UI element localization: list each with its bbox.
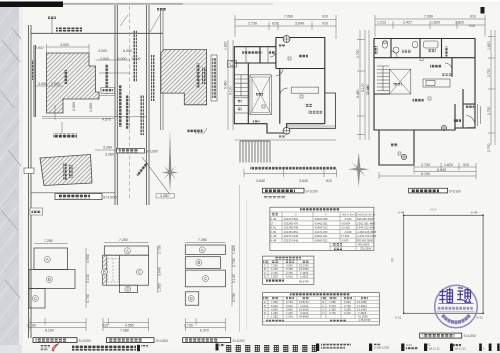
closet divisions [246,47,268,63]
svg-text:7.280: 7.280 [119,238,128,242]
svg-text:4.000: 4.000 [60,43,69,47]
svg-text:S=1/200: S=1/200 [156,339,168,343]
svg-text:910: 910 [470,15,476,19]
svg-text:9.100: 9.100 [229,86,233,95]
svg-text:K-50: K-50 [271,230,277,234]
svg-text:4.550: 4.550 [286,264,293,268]
svg-text:-1.646.726.6166: -1.646.726.6166 [357,234,377,238]
svg-text:B: B [103,270,106,275]
svg-text:2.000: 2.000 [100,57,109,61]
circle symbols [441,125,446,130]
svg-text:-5.630: -5.630 [344,217,352,221]
svg-text:S=1/200: S=1/200 [79,339,91,343]
right top tick [481,7,485,14]
svg-text:910: 910 [326,179,332,183]
svg-text:3.640: 3.640 [299,179,308,183]
kitchen counter [423,79,450,87]
svg-text:-61464.921: -61464.921 [314,234,328,238]
svg-text:17: 17 [271,221,274,225]
svg-text:3.280: 3.280 [105,152,114,156]
svg-text:K-48: K-48 [398,210,405,214]
middle small text row [438,307,473,310]
dim 3.280 [95,149,120,151]
svg-text:2.730: 2.730 [286,300,293,304]
svg-text:A: A [264,264,266,268]
svg-text:2.730: 2.730 [344,304,351,308]
dims diagram2 [103,243,158,332]
dimension lines around footprint [34,44,147,120]
svg-text:1/100·1/200: 1/100·1/200 [374,346,389,350]
bottom boundary text 隣地境界線 [53,134,77,138]
balcony louver hatch below plan [240,141,270,163]
svg-text:D: D [190,296,193,301]
kanji NIN [457,288,471,303]
svg-text:0.910: 0.910 [286,274,293,278]
svg-text:230.2804: 230.2804 [360,247,372,251]
svg-text:2.730: 2.730 [158,245,162,254]
svg-text:2.427: 2.427 [403,21,412,25]
svg-text:2.730: 2.730 [184,324,193,328]
svg-text:1.820: 1.820 [444,163,453,167]
verticals top row [391,39,442,58]
washitsu tatami square double border [250,75,271,115]
separator + small text before construction name [216,344,219,351]
top dimension texts 1F [377,15,476,29]
svg-text:2.730: 2.730 [27,324,36,328]
svg-text:3.000: 3.000 [72,102,76,111]
bed in bedroom [291,87,319,93]
svg-text:S=1/200: S=1/200 [103,196,117,200]
svg-text:K-51: K-51 [271,226,277,230]
internal verticals [248,47,279,124]
2F title bar [262,188,317,193]
svg-text:3.000: 3.000 [38,82,47,86]
stairs shaft [234,75,248,96]
svg-text:2.730: 2.730 [329,311,336,315]
compass star 2 [348,152,369,187]
left scanned map strip [0,5,22,346]
svg-text:5.460: 5.460 [356,89,360,98]
svg-text:7.280: 7.280 [120,329,129,333]
svg-text:7.280: 7.280 [271,264,278,268]
dims diagram3 [185,243,232,332]
svg-text:910: 910 [469,24,475,28]
svg-text:6.918: 6.918 [271,304,278,308]
svg-text:3.730: 3.730 [86,294,90,303]
svg-text:C: C [34,296,37,301]
svg-text:7.280: 7.280 [271,300,278,304]
3.280 dim bottom [156,194,175,199]
small leader label below neighbor bld [188,130,203,133]
svg-text:1.820: 1.820 [487,41,491,50]
svg-text:S=1/100: S=1/100 [306,189,318,193]
svg-text:C: C [204,276,207,281]
svg-text:B: B [48,277,51,282]
small 2A labels near symbols [279,44,285,46]
svg-text:6.370: 6.370 [200,329,209,333]
outside fixture box top-left [228,61,237,68]
svg-text:1.365: 1.365 [271,311,278,315]
svg-text:7.280: 7.280 [284,15,293,19]
top service row bottom wall [374,57,475,59]
svg-text:3.185: 3.185 [286,267,293,271]
small box lower-left [30,208,43,215]
door arcs [280,88,288,96]
cells below stairs [234,98,248,106]
svg-text:A: A [201,247,204,252]
top black scan bar [0,2,63,8]
small box left of it [24,168,34,174]
svg-text:4.550: 4.550 [125,324,134,328]
door arcs [391,51,397,58]
svg-text:1.561.351.4863: 1.561.351.4863 [357,221,376,225]
svg-text:460.5609: 460.5609 [358,243,370,247]
svg-text:3.730: 3.730 [232,293,236,302]
svg-text:17.3901: 17.3901 [357,304,367,308]
svg-text:K-21: K-21 [395,316,402,320]
svg-text:1.820: 1.820 [232,245,236,254]
svg-text:4.575: 4.575 [102,118,111,122]
svg-text:3.280: 3.280 [160,194,169,198]
svg-text:H: H [323,311,325,315]
title bar diagram2 [107,338,169,343]
bottom arc text [441,314,471,324]
svg-text:33.1240: 33.1240 [299,264,309,268]
dashed inner cells [108,259,119,283]
svg-text:66.6745: 66.6745 [299,280,309,284]
svg-text:178.6745: 178.6745 [359,318,371,322]
svg-text:1.446.212.5466: 1.446.212.5466 [357,226,376,230]
svg-text:A: A [264,300,266,304]
svg-text:2.730: 2.730 [487,68,491,77]
svg-text:X: X [295,212,297,216]
bottom dims 2F [235,140,338,177]
svg-text:595.965.3845: 595.965.3845 [357,217,374,221]
svg-text:1.820: 1.820 [431,21,440,25]
svg-text:-61462.921: -61462.921 [314,221,328,225]
svg-text:S=1/200: S=1/200 [464,334,477,338]
svg-text:-231374.946: -231374.946 [283,239,299,243]
svg-text:-231380.476: -231380.476 [283,221,299,225]
svg-text:3.640: 3.640 [295,22,304,26]
1F plan walls [374,39,475,166]
left small marks [40,345,50,347]
svg-text:2.730: 2.730 [421,163,430,167]
svg-text:-1.466.126.3556: -1.466.126.3556 [357,230,377,234]
svg-text:K2: K2 [427,343,431,347]
svg-text:S=1/200: S=1/200 [146,149,158,153]
svg-text:D: D [127,287,130,292]
申請建物 label [64,70,68,84]
svg-text:2.730: 2.730 [487,106,491,115]
svg-text:16.5620: 16.5620 [299,307,309,311]
svg-text:-6.916: -6.916 [344,230,352,234]
svg-text:1.820: 1.820 [344,300,351,304]
survey title bar [420,333,476,338]
kitchen/living separation [374,58,452,94]
svg-text:2.730: 2.730 [356,49,360,58]
svg-text:-61463.455: -61463.455 [314,217,328,221]
svg-text:8.190: 8.190 [421,172,430,176]
closet row bottom wall (left) [234,62,276,64]
skylight circles [283,36,290,135]
balcony right extension [287,93,336,128]
svg-text:3.140: 3.140 [86,274,90,283]
compass star near site plan [162,130,179,192]
svg-text:7.4529: 7.4529 [300,271,309,275]
svg-text:1.000: 1.000 [89,103,93,112]
svg-text:K-49: K-49 [471,210,478,214]
company name text [72,346,136,351]
svg-text:-5.630: -5.630 [341,239,349,243]
svg-text:18.11.21: 18.11.21 [429,347,440,351]
svg-text:3.640: 3.640 [286,307,293,311]
svg-text:1.6562: 1.6562 [300,274,309,278]
svg-text:4.000: 4.000 [98,49,107,53]
svg-text:4.900: 4.900 [86,254,90,263]
svg-text:-16.954: -16.954 [341,221,351,225]
svg-text:3.130: 3.130 [344,311,351,315]
svg-text:910: 910 [463,163,469,167]
bath fixtures [424,41,439,48]
left dimension column 1F [368,30,370,140]
paper crease line [239,185,241,332]
svg-text:B: B [198,260,201,265]
outer boundary [374,39,475,166]
svg-text:-61471.252: -61471.252 [314,230,328,234]
svg-text:2.947: 2.947 [35,46,44,50]
svg-text:G: G [323,307,325,311]
svg-text:13.2496: 13.2496 [357,300,367,304]
svg-text:3.185: 3.185 [344,307,351,311]
svg-text:2.730: 2.730 [248,22,257,26]
svg-text:910: 910 [322,15,328,19]
1F title bar [409,188,461,193]
leader to top text [51,18,53,33]
svg-text:6.000: 6.000 [123,49,132,53]
svg-text:1.820: 1.820 [271,274,278,278]
svg-text:C: C [264,271,266,275]
svg-text:Yn(Xn+1-Xn-1): Yn(Xn+1-Xn-1) [357,212,375,216]
dims diagram1 [29,244,86,332]
entrance block right [455,89,475,130]
svg-text:7.4529: 7.4529 [358,311,367,315]
svg-text:C: C [264,307,266,311]
svg-text:2.730: 2.730 [286,271,293,275]
svg-text:1.820: 1.820 [224,41,228,50]
svg-text:595.965.3845: 595.965.3845 [357,239,374,243]
right dimension column 2F [357,30,365,140]
chord line under kanji [439,303,474,305]
svg-text:E: E [323,300,325,304]
title bar diagram3 [183,338,245,343]
svg-text:41.3545: 41.3545 [358,315,368,319]
bold kanji construction name [226,345,317,352]
note text under 2F plan [250,167,336,170]
svg-text:1.240: 1.240 [286,311,293,315]
svg-text:910: 910 [322,22,328,26]
svg-text:7.280: 7.280 [44,239,53,243]
svg-text:-231381.861: -231381.861 [283,230,299,234]
void square with cross [390,69,411,94]
svg-text:K-48: K-48 [271,234,277,238]
svg-text:9.100: 9.100 [430,208,437,212]
svg-text:B: B [264,304,266,308]
svg-text:-61464.921: -61464.921 [314,239,328,243]
building footprint (hatched) [47,53,100,113]
vertical text runs along road [119,85,122,127]
svg-text:7.280: 7.280 [424,15,433,19]
svg-text:S=1/200: S=1/200 [233,339,245,343]
svg-text:910: 910 [102,324,108,328]
svg-text:C: C [138,270,141,275]
room labels 2F [242,51,262,54]
kanji KAKU [439,288,453,304]
right dimension column 1F [488,30,495,145]
svg-text:-231374.946: -231374.946 [283,234,299,238]
svg-text:3.140: 3.140 [232,274,236,283]
svg-text:5.460: 5.460 [224,80,228,89]
svg-text:A: A [46,257,49,262]
text 敷地境界線 top [56,28,82,32]
前面道路 diagonal leader [142,157,170,195]
svg-text:1.213: 1.213 [377,21,386,25]
svg-text:10.440: 10.440 [366,85,370,95]
top rooms bottom wall (right) [276,68,325,70]
vertical label box right of neighbor [211,55,217,101]
svg-text:19.8744: 19.8744 [299,300,309,304]
top boundary line [31,32,163,34]
road center dashed line [129,6,131,200]
svg-text:44.8945: 44.8945 [299,315,309,319]
svg-text:3.280: 3.280 [103,146,112,150]
svg-text:7.280: 7.280 [198,238,207,242]
svg-text:13.1463: 13.1463 [357,307,367,311]
svg-text:K-49: K-49 [271,239,277,243]
svg-text:A-01: A-01 [406,343,412,347]
svg-text:4.550: 4.550 [271,307,278,311]
svg-text:A: A [126,248,129,253]
svg-text:17.962: 17.962 [341,234,350,238]
title bar diagram1 [33,338,91,343]
svg-text:K-22: K-22 [477,316,484,320]
svg-text:D: D [264,311,266,315]
leader at road top [150,13,161,32]
svg-text:Y: Y [325,212,327,216]
svg-text:18.11.21: 18.11.21 [455,347,466,351]
svg-text:K-49: K-49 [271,217,277,221]
svg-text:1.365: 1.365 [158,283,162,292]
vertical dims right [228,40,233,130]
svg-text:9.100: 9.100 [361,83,365,92]
svg-text:S=1/100: S=1/100 [449,189,461,193]
svg-text:3.000: 3.000 [118,57,127,61]
site boundary left double line [28,25,30,338]
svg-text:5.640: 5.640 [286,304,293,308]
svg-text:1.820: 1.820 [455,21,464,25]
right segments with separators [316,344,500,352]
svg-text:2.000: 2.000 [51,82,60,86]
bottom dims 1F [379,163,476,179]
svg-text:6.190: 6.190 [271,267,278,271]
svg-text:3.640: 3.640 [256,179,265,183]
1F room labels [375,46,378,54]
svg-text:1.365: 1.365 [271,315,278,319]
svg-text:910: 910 [272,22,278,26]
svg-text:(Xn-1-Xn+1): (Xn-1-Xn+1) [342,212,357,216]
svg-text:-231390.946: -231390.946 [283,226,299,230]
svg-text:7.280: 7.280 [329,300,336,304]
separator bar after check [137,345,140,351]
svg-text:-61464.102: -61464.102 [314,226,328,230]
svg-text:-231373.966: -231373.966 [283,217,299,221]
balcony inner line [287,125,336,127]
svg-text:3.640: 3.640 [158,267,162,276]
svg-text:D: D [264,274,266,278]
top dimension texts [248,15,328,26]
svg-text:16.0452: 16.0452 [299,267,309,271]
outer boundary [234,38,324,134]
svg-text:4.9231: 4.9231 [300,311,309,315]
配置図 title bar [117,148,159,153]
header blobs [300,208,340,211]
svg-text:6.440: 6.440 [437,168,446,172]
svg-text:1.365: 1.365 [329,307,336,311]
svg-text:8.190: 8.190 [45,329,54,333]
title bar below second building [31,193,117,200]
2F plan walls [234,38,335,134]
svg-text:-11.425: -11.425 [341,226,350,230]
svg-text:2.730: 2.730 [487,143,491,152]
svg-text:2.730: 2.730 [271,271,278,275]
hatched strip B inside [103,255,107,285]
stair left [377,66,390,91]
red check mark [52,344,58,351]
svg-text:1.240: 1.240 [286,315,293,319]
svg-text:3.2134: 3.2134 [300,304,309,308]
svg-text:(3): (3) [390,258,394,262]
svg-text:2.730: 2.730 [232,258,236,267]
porch arc [466,115,475,128]
washitsu wing top wall [379,129,414,131]
svg-text:6.370: 6.370 [329,304,336,308]
svg-text:B: B [264,267,266,271]
